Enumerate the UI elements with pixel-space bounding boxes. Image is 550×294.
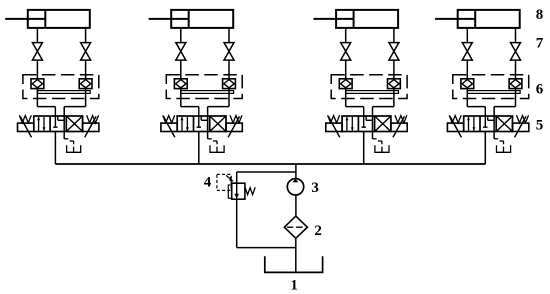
svg-text:8: 8 [536, 7, 544, 23]
svg-text:3: 3 [311, 180, 319, 196]
svg-text:6: 6 [536, 82, 544, 98]
svg-text:4: 4 [204, 175, 212, 191]
svg-text:2: 2 [314, 223, 322, 239]
svg-text:1: 1 [290, 277, 298, 293]
svg-text:5: 5 [536, 118, 544, 134]
svg-text:7: 7 [536, 36, 544, 52]
